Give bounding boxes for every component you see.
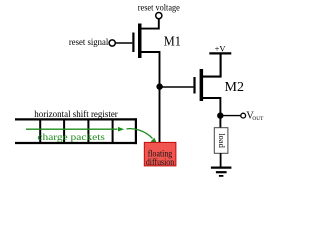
terminal circle: reset signal xyxy=(109,40,115,46)
svg-text:reset signal: reset signal xyxy=(69,38,109,48)
node: junction dot output xyxy=(217,112,223,118)
wire: M2 source down to load xyxy=(203,98,220,128)
node: junction dot M1/M2 gate xyxy=(156,83,162,89)
svg-text:+V: +V xyxy=(215,44,227,54)
floating diffusion box xyxy=(144,142,176,166)
wire: M1 source down to floating diffusion xyxy=(141,52,159,143)
shift register divider 1 xyxy=(39,119,41,143)
terminal circle: Vout xyxy=(241,113,246,118)
shift register divider 4 xyxy=(112,119,114,143)
terminal circle: reset voltage xyxy=(156,13,162,19)
svg-text:horizontal shift register: horizontal shift register xyxy=(34,109,118,119)
shift register divider 2 xyxy=(63,119,65,143)
power rail bar +V xyxy=(209,52,231,54)
shift register top line xyxy=(15,118,137,120)
shift register right edge xyxy=(135,118,137,144)
svg-text:charge packets: charge packets xyxy=(37,133,105,143)
svg-text:diffusion: diffusion xyxy=(146,157,175,167)
wire: junction to Vout terminal xyxy=(220,115,241,117)
transistor M2 channel bar xyxy=(200,69,204,101)
wire: +V rail to M2 drain xyxy=(203,55,221,77)
resistor load box xyxy=(214,128,228,154)
green arrow: charge transfer direction xyxy=(26,128,118,130)
shift register bottom line xyxy=(15,142,137,144)
green curved arrow into floating diffusion xyxy=(127,129,153,139)
transistor M1 gate bar xyxy=(132,33,134,53)
svg-text:load: load xyxy=(217,133,227,148)
svg-text:M2: M2 xyxy=(225,80,245,95)
transistor M1 channel bar xyxy=(138,24,142,59)
wire: reset signal to M1 gate xyxy=(115,42,132,44)
shift register divider 3 xyxy=(87,119,89,143)
wire: junction to M2 gate xyxy=(160,86,194,88)
svg-text:M1: M1 xyxy=(164,35,181,50)
transistor M2 gate bar xyxy=(193,77,195,94)
wire: reset voltage terminal to M1 drain xyxy=(141,19,158,29)
svg-text:OUT: OUT xyxy=(252,116,264,122)
ground symbol xyxy=(211,167,232,169)
wire: load to ground xyxy=(220,153,222,167)
